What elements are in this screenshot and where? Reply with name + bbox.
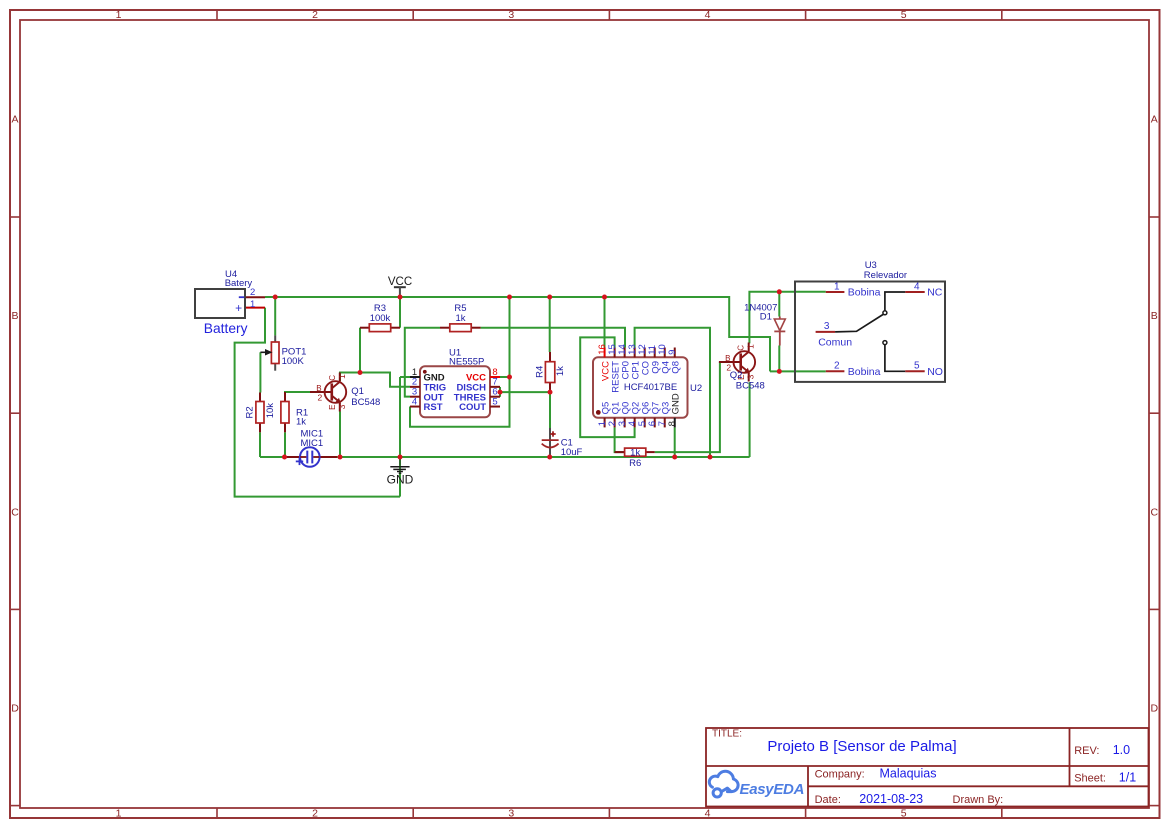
- svg-text:1k: 1k: [455, 313, 465, 324]
- junction Q1 emitter ground: [338, 455, 343, 460]
- resistor R4 top pin: [549, 352, 551, 362]
- resistor R5 left pin: [440, 327, 450, 329]
- junction D1 bottom relay pin2: [777, 369, 782, 374]
- svg-text:RST: RST: [424, 402, 443, 413]
- wire U1 DISCH THRES tie: [499, 387, 501, 397]
- resistor R5 right pin: [471, 327, 480, 329]
- junction D1 top relay pin1: [777, 289, 782, 294]
- svg-text:1.0: 1.0: [1113, 743, 1130, 757]
- svg-text:2: 2: [318, 393, 323, 403]
- U2 pin 7 Q3 bottom stub: [664, 418, 666, 428]
- battery U4 pin 1 lead: [245, 307, 265, 309]
- wire THRES node to R4 bottom: [500, 391, 550, 393]
- resistor R1 bottom pin: [284, 423, 286, 432]
- ruler ticks top: [216, 10, 218, 20]
- svg-text:HCF4017BE: HCF4017BE: [624, 382, 677, 393]
- title block logo cell divider: [807, 766, 809, 807]
- resistor R3 right pin: [391, 327, 400, 329]
- svg-text:1: 1: [116, 9, 122, 21]
- svg-text:10k: 10k: [265, 403, 276, 419]
- U1 pin 3 OUT stub: [410, 396, 420, 398]
- svg-text:NO: NO: [927, 366, 943, 378]
- svg-text:5: 5: [914, 361, 920, 372]
- U1 pin 2 TRIG stub: [410, 386, 420, 388]
- junction VCC rail R4: [547, 295, 552, 300]
- svg-text:Batery: Batery: [225, 278, 253, 289]
- ruler ticks left: [10, 216, 20, 218]
- U1 pin 5 COUT stub: [490, 406, 500, 408]
- svg-text:MIC1: MIC1: [301, 438, 324, 449]
- junction battery to VCC rail: [273, 295, 278, 300]
- wire R5 right to U2 CP0: [481, 328, 625, 348]
- U2 pin 6 Q7 bottom stub: [654, 418, 656, 428]
- ruler ticks bottom: [216, 808, 218, 818]
- svg-text:5: 5: [492, 396, 497, 407]
- relay U3 pin 1 lead: [826, 291, 845, 293]
- title block title row divider: [706, 765, 1149, 767]
- U1 pin 6 THRES stub: [490, 396, 500, 398]
- U2 pin1 marker dot: [596, 410, 601, 415]
- transistor Q1 collector stroke: [332, 382, 340, 389]
- svg-text:R2: R2: [244, 406, 255, 418]
- svg-text:C: C: [11, 506, 19, 518]
- U1 pin 8 VCC stub: [490, 376, 500, 378]
- svg-text:2: 2: [312, 808, 318, 820]
- svg-text:4: 4: [705, 808, 711, 820]
- wire U2 RESET to Q2out pin4: [580, 337, 634, 437]
- svg-text:Bobina: Bobina: [848, 287, 881, 299]
- wire U1 pin1 GND stub link: [400, 376, 410, 378]
- svg-text:Date:: Date:: [815, 794, 841, 806]
- counter U2 body: [593, 357, 688, 418]
- svg-text:1: 1: [116, 808, 122, 820]
- svg-text:1: 1: [337, 374, 347, 379]
- relay U3 pin 4 lead: [905, 291, 925, 293]
- resistor R2 bottom pin: [259, 423, 261, 432]
- svg-text:3: 3: [746, 374, 756, 379]
- junction U2 pin8 ground: [672, 455, 677, 460]
- svg-text:D1: D1: [760, 311, 772, 322]
- ground symbol GND: [387, 458, 414, 486]
- wire R1 top to Q1 base: [285, 392, 310, 402]
- wire Q1 emitter to ground rail: [339, 412, 341, 458]
- svg-text:1: 1: [834, 281, 840, 292]
- wire VCC rail to U1 pin8 and RST: [410, 297, 510, 427]
- svg-text:GND: GND: [670, 393, 681, 414]
- svg-text:R4: R4: [535, 366, 546, 378]
- U1 pin 7 DISCH stub: [490, 386, 500, 388]
- microphone MIC1 right pin: [320, 456, 338, 458]
- svg-text:Comun: Comun: [818, 337, 852, 349]
- svg-text:1/1: 1/1: [1119, 770, 1136, 784]
- svg-text:Q1: Q1: [351, 386, 364, 397]
- svg-text:4: 4: [705, 9, 711, 21]
- ruler ticks right: [1149, 216, 1160, 218]
- junction VCC symbol node: [398, 295, 403, 300]
- svg-text:C: C: [1151, 506, 1159, 518]
- resistor R6 left pin: [615, 451, 625, 453]
- svg-text:Sheet:: Sheet:: [1074, 772, 1106, 784]
- transistor Q2 base pin: [719, 361, 741, 363]
- svg-text:D: D: [11, 703, 19, 715]
- U2 pin 3 Q0 bottom stub: [624, 418, 626, 428]
- svg-text:5: 5: [901, 9, 907, 21]
- microphone MIC1 plus mark: [296, 458, 303, 465]
- junction C1 ground: [547, 455, 552, 460]
- wire battery plus down-left loop: [235, 308, 400, 497]
- potentiometer POT1 body: [271, 342, 279, 364]
- svg-text:3: 3: [824, 321, 830, 332]
- U2 pin 16 VCC top stub: [604, 348, 606, 358]
- wire Q2 collector to relay pin1: [749, 292, 825, 344]
- svg-text:NC: NC: [927, 287, 943, 299]
- junction R1 ground: [282, 455, 287, 460]
- capacitor C1 plus mark: [550, 431, 555, 436]
- transistor Q1 emitter stroke with arrow: [332, 396, 340, 403]
- potentiometer POT1 top pin: [274, 335, 276, 342]
- diode D1 anode lead: [779, 317, 781, 320]
- svg-text:BC548: BC548: [736, 380, 765, 391]
- svg-text:Malaquias: Malaquias: [880, 766, 937, 780]
- resistor R5 body: [450, 324, 471, 332]
- svg-text:Drawn By:: Drawn By:: [953, 794, 1004, 806]
- wire Q1 collector to U1 TRIG: [340, 373, 410, 387]
- U1 pin 4 RST stub: [410, 406, 420, 408]
- title block outline: [706, 728, 1149, 807]
- junction R4-C1 node: [548, 390, 553, 395]
- EasyEDA logo cloud icon: [709, 771, 738, 797]
- U2 pin 2 Q1 bottom stub: [614, 418, 616, 428]
- U2 pin 11 Q9 top stub: [654, 348, 656, 358]
- transistor Q1 collector pin: [339, 373, 341, 382]
- title block company-date divider: [808, 785, 1149, 787]
- wire D1 bottom to coil net: [778, 346, 780, 372]
- svg-text:10uF: 10uF: [561, 447, 583, 458]
- svg-text:2: 2: [312, 9, 318, 21]
- wire VCC symbol to R3 right: [399, 297, 401, 328]
- wire R6 right to Q2 base: [655, 362, 720, 452]
- svg-text:NE555P: NE555P: [449, 356, 484, 367]
- wire U1 OUT riser to R5 left: [405, 328, 440, 397]
- svg-text:Company:: Company:: [815, 768, 865, 780]
- diode D1 cathode bar: [774, 330, 785, 332]
- resistor R4 bottom pin: [549, 383, 551, 393]
- svg-text:3: 3: [337, 404, 347, 409]
- wire U2 pin8 GND to rail: [674, 427, 676, 457]
- svg-text:D: D: [1151, 703, 1159, 715]
- wire POT1 wiper to R2 top: [259, 352, 261, 392]
- junction VCC rail x509: [507, 295, 512, 300]
- U2 pin 4 Q2 bottom stub: [634, 418, 636, 428]
- wire POT1 top to VCC rail: [274, 297, 276, 335]
- potentiometer POT1 bottom pin: [274, 364, 276, 371]
- transistor Q1 emitter pin: [339, 403, 341, 412]
- svg-text:4: 4: [914, 281, 920, 292]
- U2 pin 15 RESET top stub: [614, 348, 616, 358]
- U2 pin 12 CO top stub: [644, 348, 646, 358]
- transistor Q2 collector stroke: [741, 352, 749, 359]
- transistor Q2 collector pin: [748, 343, 750, 352]
- diode D1 cathode lead: [779, 331, 781, 345]
- svg-text:3: 3: [508, 9, 514, 21]
- transistor Q2 pin letters: [725, 344, 756, 380]
- U2 pin 13 CP1 top stub: [634, 348, 636, 358]
- svg-text:U2: U2: [690, 383, 702, 394]
- capacitor C1 plates: [542, 440, 559, 447]
- wire ground rail: [260, 456, 750, 458]
- svg-text:Battery: Battery: [204, 321, 248, 336]
- svg-text:Q8: Q8: [670, 361, 681, 374]
- wire VCC rail to U2 pin16: [604, 297, 606, 348]
- svg-text:VCC: VCC: [388, 276, 412, 288]
- transistor Q1 base pin: [310, 391, 332, 393]
- junction VCC rail U2pin16: [602, 295, 607, 300]
- wire VCC rail: [265, 297, 770, 371]
- relay U3 pin 2 lead: [826, 370, 845, 372]
- junction DISCH-THRES node: [498, 390, 503, 395]
- svg-text:C: C: [328, 375, 337, 381]
- svg-text:Projeto B [Sensor de Palma]: Projeto B [Sensor de Palma]: [767, 738, 956, 755]
- transistor Q1 pin letters: [316, 374, 347, 410]
- title block rev-sheet divider: [1069, 728, 1071, 786]
- U2 pin 10 Q4 top stub: [664, 348, 666, 358]
- junction R3 to collector node: [358, 370, 363, 375]
- microphone MIC1 left pin: [285, 456, 300, 458]
- svg-text:GND: GND: [387, 472, 414, 486]
- resistor R2 body: [256, 402, 264, 424]
- resistor R3 left pin: [360, 327, 369, 329]
- resistor R3 body: [369, 324, 390, 332]
- relay U3 common contact arm: [835, 292, 905, 332]
- svg-text:A: A: [11, 114, 18, 126]
- svg-text:2021-08-23: 2021-08-23: [859, 792, 923, 806]
- resistor R6 right pin: [646, 451, 655, 453]
- svg-text:REV:: REV:: [1074, 745, 1099, 757]
- svg-text:3: 3: [508, 808, 514, 820]
- svg-text:1k: 1k: [296, 417, 306, 428]
- U1 pin 1 GND stub: [410, 376, 420, 378]
- wire U2 Q1out pin2 to R6 left: [615, 427, 625, 452]
- U1 pin1 marker dot: [423, 370, 427, 374]
- capacitor C1 pin lead: [549, 428, 551, 457]
- svg-text:+: +: [235, 301, 242, 315]
- transistor Q2 base bar: [739, 353, 742, 370]
- junction CP1 ground: [708, 455, 713, 460]
- transistor Q2 emitter stroke with arrow: [741, 366, 749, 373]
- svg-text:8: 8: [667, 421, 678, 426]
- svg-text:BC548: BC548: [351, 397, 380, 408]
- battery U4 body: [195, 289, 245, 318]
- resistor R2 top pin: [259, 393, 261, 402]
- svg-text:1k: 1k: [555, 366, 566, 376]
- svg-text:TITLE:: TITLE:: [712, 729, 742, 740]
- wire R2 bottom to ground rail: [259, 432, 261, 457]
- svg-text:COUT: COUT: [459, 402, 486, 413]
- svg-text:100k: 100k: [370, 313, 391, 324]
- battery U4 pin 2 lead: [245, 296, 265, 298]
- U2 pin 14 CP0 top stub: [624, 348, 626, 358]
- svg-text:1: 1: [746, 344, 756, 349]
- relay U3 NO contact: [883, 341, 905, 372]
- wire R4 bottom to C1 top: [549, 392, 551, 428]
- U2 pin 1 Q5 bottom stub: [604, 418, 606, 428]
- svg-text:2: 2: [834, 361, 840, 372]
- svg-text:C: C: [737, 345, 746, 351]
- op-amp timer U1 body: [420, 366, 490, 417]
- wire D1 top to collector net: [778, 292, 780, 317]
- relay U3 pin 5 lead: [905, 370, 925, 372]
- transistor Q2 body circle: [734, 351, 756, 373]
- wire R3 left to Q1 collector node: [359, 328, 361, 373]
- resistor R6 body: [625, 448, 646, 456]
- svg-text:5: 5: [901, 808, 907, 820]
- svg-text:4: 4: [412, 396, 417, 407]
- wire U1 pin8 stub link: [500, 376, 510, 378]
- junction U1 pin8 VCC: [507, 375, 512, 380]
- wire R1 bottom to ground rail: [284, 432, 286, 457]
- potentiometer POT1 wiper arrow: [260, 350, 271, 355]
- U2 pin 9 Q8 top stub: [674, 348, 676, 358]
- microphone MIC1 body: [300, 447, 320, 467]
- battery U4 polarity marks: [235, 297, 244, 315]
- svg-text:100K: 100K: [282, 356, 305, 367]
- junction GND symbol node: [398, 455, 403, 460]
- wire VCC rail to R4 top: [549, 297, 551, 352]
- VCC power symbol: [388, 276, 412, 297]
- wire Q2 emitter to ground rail: [749, 382, 751, 457]
- svg-text:EasyEDA: EasyEDA: [740, 781, 805, 798]
- relay U3 pin 3 lead: [816, 331, 836, 333]
- U2 pin 8 GND bottom stub: [674, 418, 676, 428]
- svg-text:Relevador: Relevador: [864, 270, 907, 281]
- wire U2 CP1 ground segment: [635, 328, 710, 457]
- wire relay coil pin2 to VCC: [770, 370, 826, 372]
- transistor Q1 body circle: [325, 381, 347, 403]
- resistor R4 body: [545, 362, 554, 383]
- svg-text:Bobina: Bobina: [848, 366, 881, 378]
- svg-text:B: B: [11, 310, 18, 322]
- wire ground riser at x400: [399, 377, 401, 497]
- resistor R1 top pin: [284, 392, 286, 402]
- transistor Q1 base bar: [330, 383, 333, 400]
- diode D1 triangle: [774, 319, 785, 331]
- svg-text:1: 1: [250, 299, 255, 310]
- resistor R1 body: [281, 402, 289, 424]
- battery U4 pin numbers: [250, 287, 255, 310]
- svg-text:A: A: [1151, 114, 1158, 126]
- transistor Q2 emitter pin: [748, 373, 750, 382]
- svg-text:B: B: [1151, 310, 1158, 322]
- svg-text:R6: R6: [629, 458, 641, 469]
- relay U3 body: [795, 282, 945, 382]
- svg-text:9: 9: [667, 350, 678, 355]
- U2 pin 5 Q6 bottom stub: [644, 418, 646, 428]
